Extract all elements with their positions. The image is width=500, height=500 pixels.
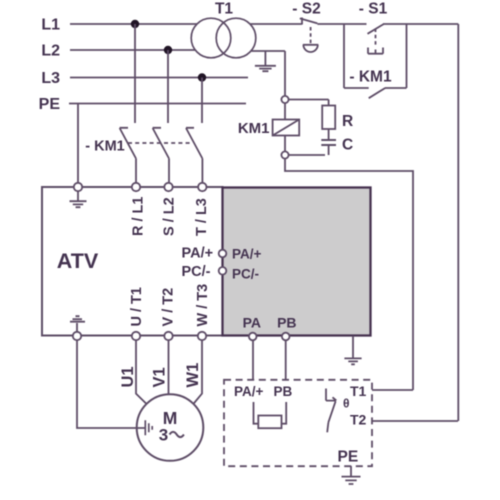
terminal PA/+ [219,250,227,258]
svg-text:U1: U1 [119,366,137,387]
svg-text:R / L1: R / L1 [130,197,146,236]
terminal R/L1 [132,183,140,191]
wire T2 [372,420,458,422]
svg-text:KM1: KM1 [238,120,270,137]
block brake option (gray) [223,188,371,336]
terminal V/T2 [164,332,172,340]
ground below gray block [344,336,361,364]
node coil bottom [281,151,288,158]
wire PB down [285,341,287,380]
wire L1 [70,23,197,25]
svg-text:T1: T1 [215,1,233,18]
svg-text:PA/+: PA/+ [182,246,214,262]
svg-text:PA: PA [243,315,261,331]
contactor KM1 pole 2 [153,128,169,183]
junction dot L2 [164,46,172,54]
wire W motor [193,340,202,404]
switch S2 mushroom head [303,45,318,52]
motor M1 [137,394,204,461]
junction dot L3 [198,73,206,81]
node branch junction [343,24,345,88]
svg-text:S / L2: S / L2 [161,197,177,236]
wire U motor [136,340,147,404]
block ATV drive [42,187,223,336]
svg-text:V / T2: V / T2 [161,288,177,327]
svg-text:W1: W1 [184,363,202,388]
contactor KM1 linkage dashes [128,142,190,144]
terminal W/T3 [198,332,206,340]
wire coil return to T1 [285,159,413,390]
contactor KM1 pole 3 [186,128,202,183]
terminal T/L3 [198,183,206,191]
earth inside ATV bottom [70,316,85,332]
wire C to node [289,146,329,155]
svg-text:PB: PB [277,315,296,331]
wire secondary bottom [252,50,286,52]
terminal PC/- [219,267,227,275]
svg-text:L1: L1 [41,17,60,34]
svg-text:T2: T2 [350,412,367,428]
wire V motor [168,340,170,394]
svg-text:R: R [342,113,353,130]
svg-text:PA/+: PA/+ [234,384,264,399]
wire control top line left [317,23,366,25]
terminal S/L2 [164,183,172,191]
node coil top [281,96,288,103]
wire PE to motor [77,340,145,428]
wire T1 [372,389,413,391]
terminal U/T1 [132,332,140,340]
wire PA to resistor [254,402,259,424]
earth inside ATV top [70,191,87,207]
wire control to T2 [457,24,459,421]
wire L3 [70,77,248,79]
svg-text:- S1: - S1 [359,1,388,18]
resistor braking [258,416,281,429]
switch S2 actuator dashes [310,27,312,44]
box braking resistor assembly (dashed) [224,380,372,466]
svg-text:T / L3: T / L3 [194,198,210,236]
svg-text:- KM1: - KM1 [349,69,392,86]
capacitor C [321,140,336,145]
svg-text:C: C [342,137,353,154]
contact KM1 aux (self holding) [344,88,407,98]
resistor R [322,106,335,130]
wire L3 drop [201,78,203,124]
svg-text:V1: V1 [150,367,168,387]
wire L1 drop [134,24,136,123]
wire L2 [70,49,196,51]
terminal PB [282,333,290,341]
junction dot L1 [131,20,139,28]
wire L2 drop [167,50,169,123]
svg-text:L2: L2 [41,43,60,60]
svg-text:ATV: ATV [57,249,99,273]
wire PE [69,103,246,105]
wire branch right side [406,24,408,88]
motor sine symbol [170,432,184,437]
svg-text:W / T3: W / T3 [195,284,211,327]
terminal PA [249,333,257,341]
svg-text:PA/+: PA/+ [232,247,262,262]
wire PE drop [77,104,79,184]
wire secondary to coil node [284,51,286,96]
svg-text:- KM1: - KM1 [85,139,124,155]
thermal contact theta [326,389,336,433]
svg-text:PE: PE [39,96,61,113]
svg-text:PE: PE [338,449,359,466]
terminal PE bottom [73,332,81,340]
wire control top line right [383,23,458,25]
ground below box [342,466,361,484]
switch S1 (NO start contact) [368,24,384,34]
coil KM1 [284,103,286,119]
switch S2 (NC stop contact) [300,18,318,25]
svg-text:PB: PB [274,384,293,399]
switch S1 pushbutton actuator [368,48,383,54]
svg-text:PC/-: PC/- [182,264,211,280]
svg-text:T1: T1 [350,383,367,399]
terminal PE top [74,183,82,191]
svg-text:- S2: - S2 [292,1,320,18]
svg-text:θ: θ [343,397,350,411]
wire R to C [328,129,330,139]
contactor KM1 pole 1 [120,128,136,183]
svg-text:U / T1: U / T1 [129,287,145,326]
svg-text:3: 3 [159,426,168,445]
ground below transformer [255,51,276,71]
wire PB to resistor [282,402,287,424]
svg-text:L3: L3 [41,70,60,87]
svg-text:PC/-: PC/- [232,267,259,282]
wire secondary top [251,23,303,25]
switch S1 actuator dashes [375,29,377,48]
wire PA down [252,341,254,380]
wire node to R [289,100,329,106]
earth inside motor [145,420,152,435]
